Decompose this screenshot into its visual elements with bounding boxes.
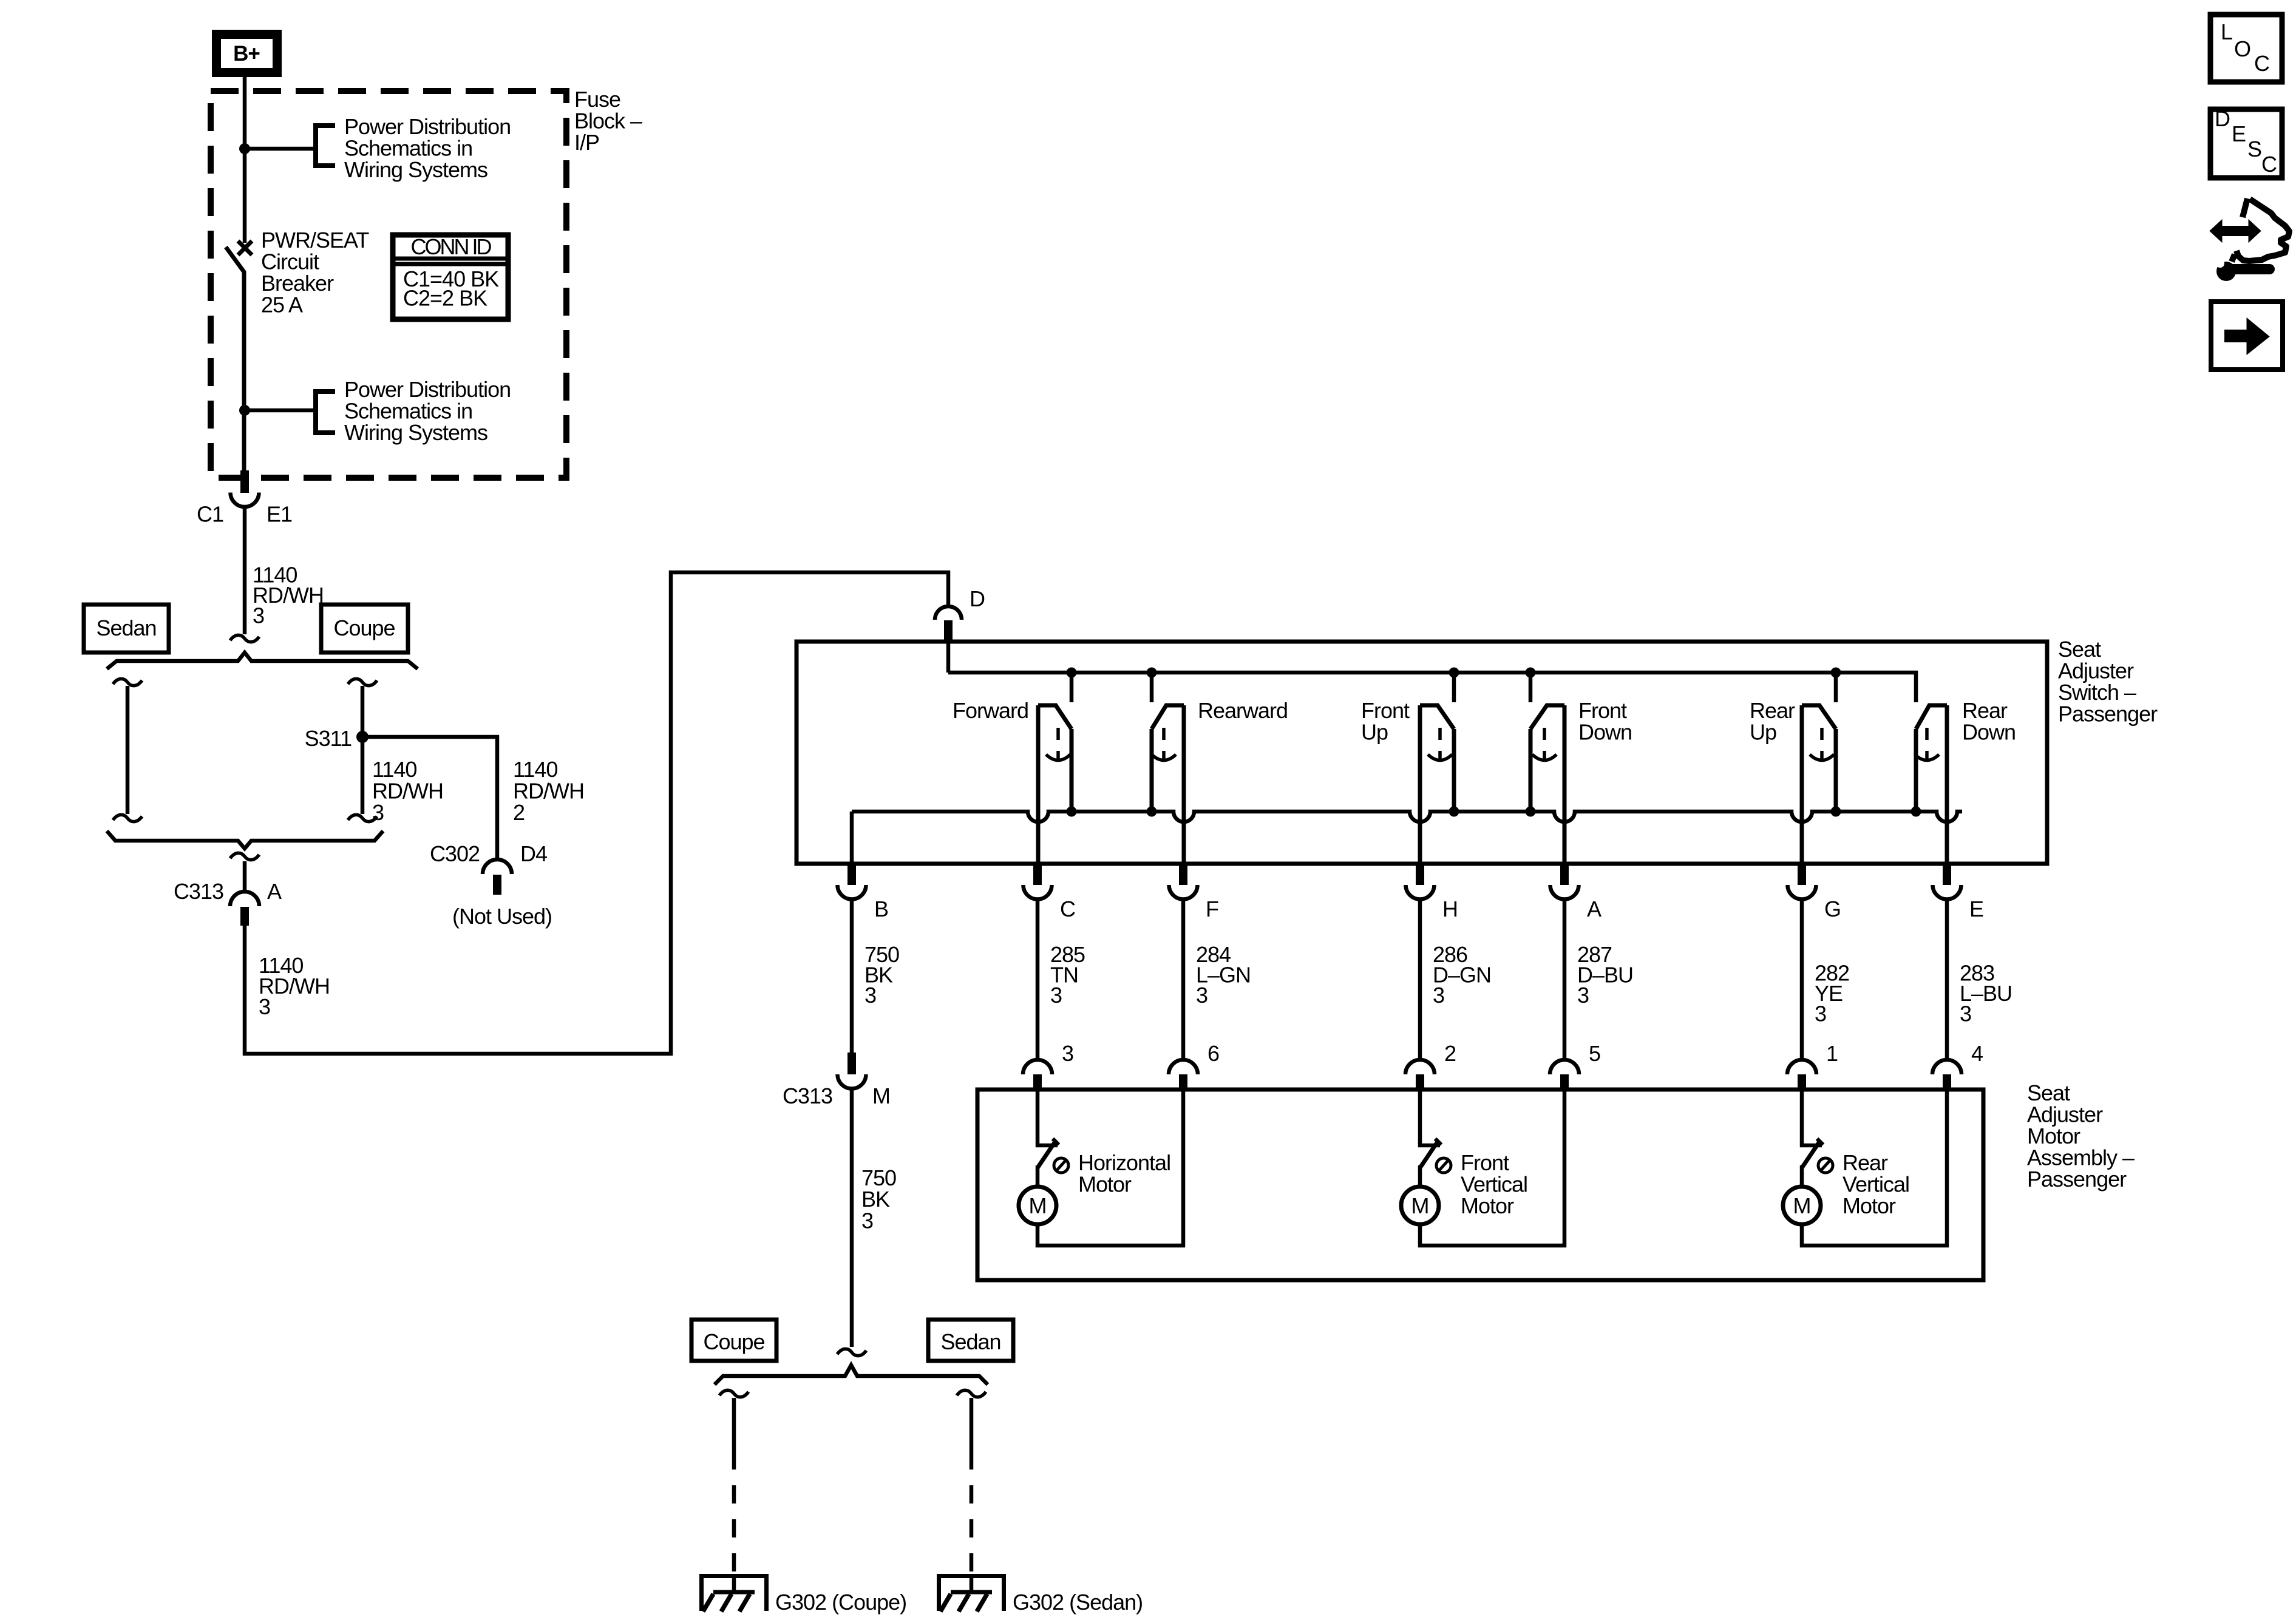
feed bus (top) inside switch <box>948 673 1916 702</box>
wire coupe branch <box>361 686 365 814</box>
svg-text:S: S <box>2247 137 2261 161</box>
node return bus dot x=3156 <box>1911 807 1921 817</box>
wire sedan branch <box>126 686 130 814</box>
svg-text:3: 3 <box>259 994 270 1019</box>
svg-text:Sedan: Sedan <box>940 1329 1000 1354</box>
switch Rearward contact leg <box>1150 729 1154 812</box>
motor connector 6 pin <box>1179 1074 1187 1090</box>
wire 750 BK 3 to ground split <box>850 1089 854 1347</box>
svg-text:3: 3 <box>1196 983 1207 1008</box>
connector B cup <box>838 885 866 900</box>
Horizontal motor circuit breaker symbol <box>1054 1158 1068 1173</box>
wire break squiggle coupe branch bottom <box>348 815 377 821</box>
wire blade to motor <box>1036 1165 1040 1187</box>
return bus (bottom) inside switch with crossover hops <box>852 812 1962 822</box>
switch Forward contact leg <box>1070 729 1074 812</box>
motor connector 3 pin <box>1033 1074 1042 1090</box>
switch Rearward blade <box>1152 705 1184 729</box>
wire branch to upper power distribution reference <box>245 147 313 151</box>
svg-text:2: 2 <box>513 800 525 825</box>
wire Front motor left leg <box>1418 1090 1422 1144</box>
motor connector 4 pin <box>1943 1074 1951 1090</box>
connector A pin <box>1560 864 1569 885</box>
svg-text:C: C <box>1060 897 1075 921</box>
circuit breaker PWR/SEAT 25A contact X <box>238 241 252 255</box>
svg-text:H: H <box>1442 897 1458 921</box>
svg-text:D: D <box>970 586 985 611</box>
switch Rear Up blade <box>1802 705 1836 729</box>
contact stub x=1765 <box>1070 673 1074 702</box>
svg-text:M: M <box>1411 1193 1429 1218</box>
node feed bus dot x=2395 <box>1449 668 1459 678</box>
contact stub x=1897 <box>1150 673 1154 702</box>
svg-text:3: 3 <box>372 800 384 825</box>
B+ power feed symbol <box>212 30 282 77</box>
connector C313 M cup <box>838 1074 866 1088</box>
svg-text:M: M <box>1793 1193 1811 1218</box>
connector A cup <box>1550 885 1579 900</box>
svg-text:5: 5 <box>1589 1041 1600 1066</box>
icon LOC box <box>2210 15 2282 82</box>
switch Forward tall leg <box>1036 705 1041 864</box>
switch Front Up blade <box>1420 705 1454 729</box>
motor connector 3 dome <box>1023 1060 1052 1074</box>
node return bus dot x=3024 <box>1831 807 1841 817</box>
svg-text:C1: C1 <box>197 502 223 527</box>
svg-text:C313: C313 <box>174 879 223 904</box>
svg-text:G302 (Sedan): G302 (Sedan) <box>1013 1590 1143 1615</box>
node feed bus dot x=2521 <box>1526 668 1536 678</box>
switch Front Up contact leg <box>1452 729 1456 812</box>
svg-text:3: 3 <box>1433 983 1444 1008</box>
Rear motor circuit breaker symbol <box>1818 1158 1833 1173</box>
motor connector 1 dome <box>1787 1060 1816 1074</box>
Front motor circuit breaker symbol <box>1436 1158 1451 1173</box>
motor connector 2 pin <box>1416 1074 1424 1090</box>
wire motor loop to right leg <box>1420 1090 1564 1246</box>
connector H pin <box>1416 864 1424 885</box>
svg-text:25 A: 25 A <box>261 293 303 317</box>
icon adjust component with double arrow and wrench <box>2221 226 2250 236</box>
wire blade to motor <box>1800 1165 1804 1187</box>
connector D dome <box>935 606 962 620</box>
svg-text:M: M <box>1029 1193 1047 1218</box>
wire break squiggle above C313 A <box>230 853 259 859</box>
svg-text:3: 3 <box>1577 983 1589 1008</box>
svg-text:I/P: I/P <box>574 130 599 155</box>
wire break squiggle coupe branch top <box>348 679 377 685</box>
switch Rearward tall leg <box>1182 705 1186 864</box>
svg-text:3: 3 <box>1050 983 1062 1008</box>
motor M Horizontal <box>1019 1187 1056 1224</box>
wire Horizontal motor left leg <box>1036 1090 1040 1144</box>
svg-text:Motor: Motor <box>1078 1172 1132 1197</box>
icon DESC box <box>2210 109 2282 178</box>
svg-text:Passenger: Passenger <box>2027 1167 2127 1192</box>
svg-text:3: 3 <box>861 1209 873 1233</box>
contact stub x=3024 <box>1834 673 1838 702</box>
connector B pin <box>847 864 856 885</box>
wire break squiggle sedan branch top <box>113 679 142 685</box>
wire 1140 RD/WH 3 below C1 <box>243 507 247 634</box>
svg-text:C: C <box>2254 51 2269 76</box>
switch Front Down blade <box>1530 705 1564 729</box>
wire break squiggle above ground split brace <box>837 1349 866 1355</box>
svg-text:Motor: Motor <box>1843 1193 1896 1218</box>
connector F pin <box>1179 864 1187 885</box>
svg-text:Wiring Systems: Wiring Systems <box>344 157 487 182</box>
connector H cup <box>1406 885 1435 900</box>
svg-text:C: C <box>2261 152 2277 177</box>
node junction dot upper <box>239 143 250 154</box>
svg-text:Up: Up <box>1750 720 1776 745</box>
svg-text:S311: S311 <box>305 726 352 751</box>
connector C302 D4 pin <box>493 875 501 895</box>
wire from B+ to circuit breaker <box>243 77 247 243</box>
motor connector 6 dome <box>1169 1060 1198 1074</box>
wire circuit 750 BK 3 <box>850 900 854 1053</box>
svg-text:F: F <box>1206 897 1218 921</box>
ground symbol G302 (Sedan) <box>937 1574 1006 1578</box>
svg-text:1: 1 <box>1826 1041 1838 1066</box>
svg-text:2: 2 <box>1444 1041 1456 1066</box>
switch Rearward detent <box>1162 728 1166 740</box>
connector C cup <box>1024 885 1052 900</box>
switch Front Down detent <box>1543 728 1546 740</box>
wire into C313 A <box>243 861 247 892</box>
wire circuit 284 L–GN 3 <box>1181 900 1186 1060</box>
switch Front Up detent <box>1438 728 1442 740</box>
wire motor loop to right leg <box>1038 1090 1183 1246</box>
svg-text:3: 3 <box>1815 1002 1826 1026</box>
node feed bus dot x=1897 <box>1147 668 1157 678</box>
Seat Adjuster Motor Assembly - Passenger box <box>977 1090 1983 1280</box>
svg-text:3: 3 <box>1960 1002 1971 1026</box>
wire solid segment G302 (Sedan) <box>970 1398 974 1451</box>
option split brace (bottom) <box>715 1365 988 1385</box>
contact stub x=2521 <box>1529 673 1533 702</box>
option box Sedan (top) <box>84 605 169 653</box>
switch Front Up tall leg <box>1418 705 1422 864</box>
svg-text:Down: Down <box>1578 720 1632 745</box>
node return bus dot x=1897 <box>1147 807 1157 817</box>
wire break squiggle sedan branch bottom <box>113 815 142 821</box>
connector E cup <box>1933 885 1961 900</box>
svg-text:3: 3 <box>253 603 264 628</box>
connector C pin <box>1033 864 1042 885</box>
contact stub x=2395 <box>1452 673 1456 702</box>
wire solid segment G302 (Coupe) <box>732 1398 736 1451</box>
wire D into switch feed bus <box>946 640 951 673</box>
motor connector 2 dome <box>1405 1060 1435 1074</box>
circuit breaker blade <box>226 247 244 478</box>
node feed bus dot x=3024 <box>1831 668 1841 678</box>
connector C313 M pin <box>847 1053 856 1074</box>
svg-text:4: 4 <box>1971 1041 1983 1066</box>
motor connector 5 dome <box>1550 1060 1579 1074</box>
motor connector 4 dome <box>1932 1060 1961 1074</box>
svg-text:Rearward: Rearward <box>1198 698 1288 723</box>
svg-text:Up: Up <box>1361 720 1388 745</box>
connector E pin <box>1943 864 1951 885</box>
svg-text:B: B <box>874 897 888 921</box>
switch Front Down contact leg <box>1529 729 1533 812</box>
wire circuit 282 YE 3 <box>1800 900 1804 1060</box>
svg-text:E: E <box>1969 897 1983 921</box>
node return bus dot x=2521 <box>1526 807 1536 817</box>
switch Rear Up detent <box>1820 728 1824 740</box>
wire circuit 287 D–BU 3 <box>1563 900 1567 1060</box>
svg-text:O: O <box>2234 36 2250 61</box>
connector F cup <box>1169 885 1198 900</box>
Fuse Block - I/P dashed enclosure <box>211 91 566 478</box>
motor connector 1 pin <box>1798 1074 1806 1090</box>
motor M Rear <box>1783 1187 1821 1224</box>
svg-text:3: 3 <box>864 983 876 1008</box>
connector C1 E1 pin <box>240 470 249 493</box>
svg-text:Forward: Forward <box>953 698 1028 723</box>
option merge brace (middle) <box>107 831 383 849</box>
reference bracket lower <box>313 389 318 435</box>
option split brace (top) <box>107 653 418 669</box>
wire break squiggle above option brace <box>230 635 259 642</box>
switch Rear Down detent <box>1925 728 1929 740</box>
svg-text:A: A <box>1587 897 1601 921</box>
Horizontal motor thermal switch blade <box>1038 1142 1055 1168</box>
wire from S311 to C302 <box>362 737 497 859</box>
connector C302 D4 dome <box>483 859 512 874</box>
wire break squiggle G302 (Sedan) branch <box>957 1390 986 1397</box>
svg-text:E: E <box>2232 121 2246 146</box>
connector D pin <box>944 620 953 640</box>
motor connector 5 pin <box>1560 1074 1569 1090</box>
wire branch to lower power distribution reference <box>245 408 313 413</box>
wire circuit 286 D–GN 3 <box>1418 900 1422 1060</box>
node feed bus dot x=1765 <box>1067 668 1077 678</box>
svg-text:C302: C302 <box>430 841 480 866</box>
wire circuit 285 TN 3 <box>1036 900 1040 1060</box>
wire dashed segment G302 (Sedan) <box>970 1451 974 1576</box>
wire motor loop to right leg <box>1802 1090 1947 1246</box>
switch Rear Up contact leg <box>1834 729 1838 812</box>
connector G cup <box>1788 885 1816 900</box>
ground symbol G302 (Coupe) <box>699 1574 769 1578</box>
wire circuit 283 L–BU 3 <box>1945 900 1949 1060</box>
switch Front Down tall leg <box>1563 705 1567 864</box>
connector C313 A pin <box>240 907 249 926</box>
svg-text:Coupe: Coupe <box>703 1329 764 1354</box>
switch Rear Down contact leg <box>1914 729 1918 812</box>
node return bus dot x=2395 <box>1449 807 1459 817</box>
node junction dot lower <box>239 405 250 416</box>
return bus corner down to B <box>850 812 854 864</box>
svg-text:A: A <box>267 879 282 904</box>
switch Rear Down tall leg <box>1945 705 1949 864</box>
svg-text:Passenger: Passenger <box>2058 702 2158 727</box>
option box Sedan (bottom) <box>928 1320 1013 1361</box>
svg-text:Wiring Systems: Wiring Systems <box>344 420 487 445</box>
motor M Front <box>1401 1187 1439 1224</box>
svg-text:(Not Used): (Not Used) <box>452 904 552 929</box>
svg-text:Coupe: Coupe <box>333 615 395 640</box>
wire dashed segment G302 (Coupe) <box>732 1451 736 1576</box>
option box Coupe (bottom) <box>691 1320 776 1361</box>
svg-text:L: L <box>2221 19 2232 44</box>
connector G pin <box>1798 864 1806 885</box>
connector C1 E1 cup <box>231 493 259 507</box>
switch Forward detent <box>1056 728 1060 740</box>
node return bus dot x=1765 <box>1067 807 1077 817</box>
CONN ID table <box>393 235 508 319</box>
icon forward arrow box <box>2211 302 2283 370</box>
Front motor thermal switch blade <box>1420 1142 1438 1168</box>
splice S311 <box>356 731 369 743</box>
option box Coupe (top) <box>321 605 408 653</box>
svg-text:G302 (Coupe): G302 (Coupe) <box>775 1590 906 1615</box>
svg-text:D: D <box>2215 106 2230 131</box>
svg-text:E1: E1 <box>267 502 292 527</box>
svg-text:Sedan: Sedan <box>96 615 156 640</box>
svg-text:C2=2 BK: C2=2 BK <box>403 286 487 311</box>
switch Forward blade <box>1038 705 1072 729</box>
switch Rear Up tall leg <box>1800 705 1804 864</box>
svg-text:3: 3 <box>1062 1041 1073 1066</box>
wire Rear motor left leg <box>1800 1090 1804 1144</box>
switch Rear Down blade <box>1916 705 1947 729</box>
wire break squiggle G302 (Coupe) branch <box>719 1390 749 1397</box>
Rear motor thermal switch blade <box>1802 1142 1819 1168</box>
svg-text:M: M <box>872 1083 890 1108</box>
wire 1140 RD/WH 3 from C313 to seat adjuster switch feed <box>245 572 948 1054</box>
svg-text:CONN ID: CONN ID <box>411 234 492 259</box>
svg-text:D4: D4 <box>520 841 547 866</box>
svg-text:6: 6 <box>1207 1041 1219 1066</box>
svg-text:Down: Down <box>1962 720 2016 745</box>
connector C313 A dome <box>230 892 259 906</box>
Seat Adjuster Switch - Passenger box <box>796 642 2047 864</box>
svg-text:C313: C313 <box>783 1083 832 1108</box>
wire blade to motor <box>1418 1165 1422 1187</box>
reference bracket upper <box>313 123 318 168</box>
svg-text:Motor: Motor <box>1461 1193 1514 1218</box>
svg-text:G: G <box>1824 897 1841 921</box>
svg-text:B+: B+ <box>233 42 260 66</box>
